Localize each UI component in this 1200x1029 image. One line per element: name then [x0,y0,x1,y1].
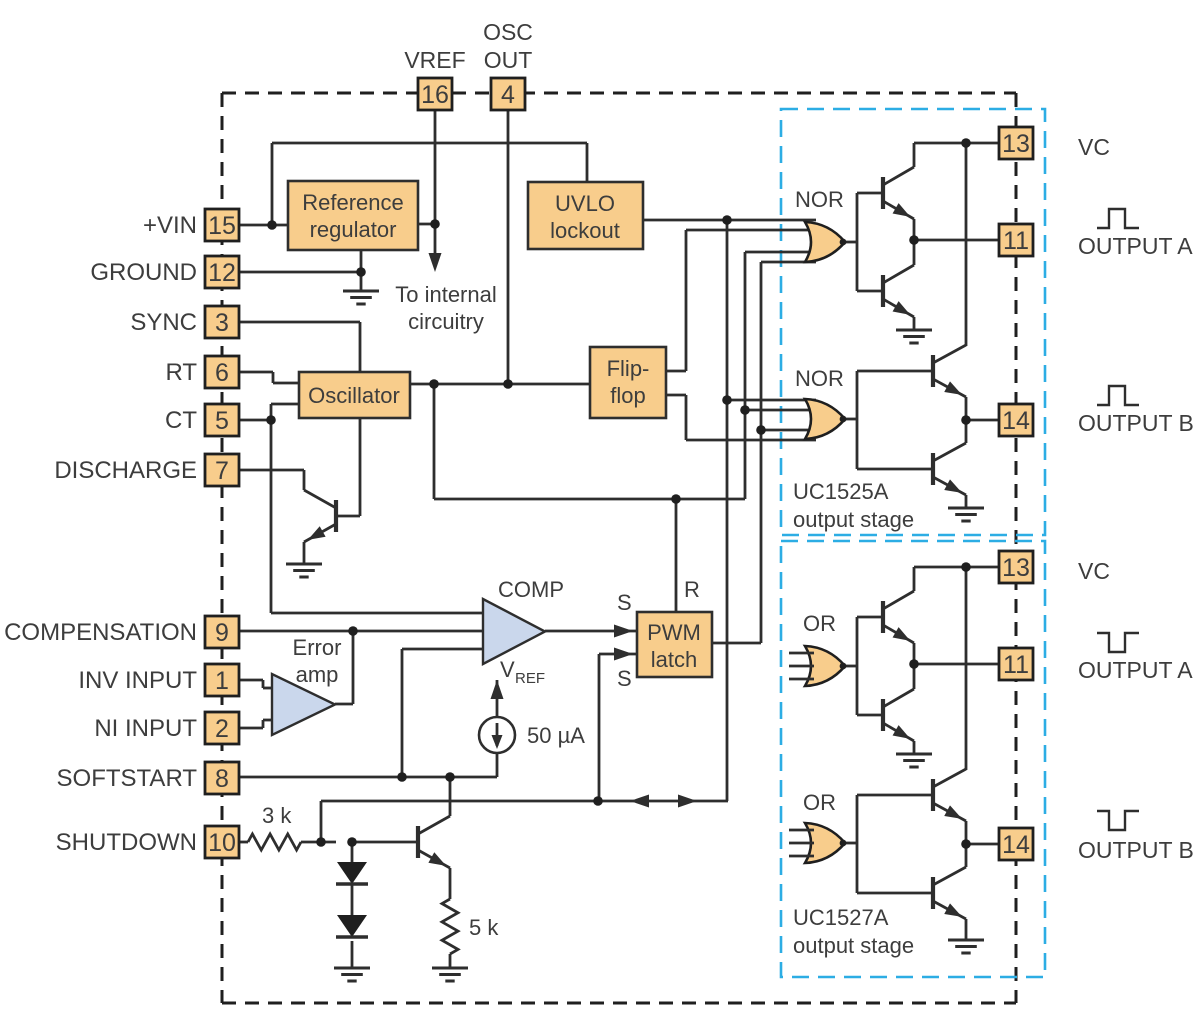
svg-text:INV INPUT: INV INPUT [78,667,197,694]
svg-text:15: 15 [208,212,236,240]
svg-text:flop: flop [610,383,645,408]
svg-text:14: 14 [1002,831,1030,859]
svg-text:To internal: To internal [395,282,497,307]
svg-text:13: 13 [1002,130,1030,158]
svg-text:VC: VC [1078,134,1110,160]
svg-text:Flip-: Flip- [607,356,650,381]
svg-text:2: 2 [215,715,229,743]
svg-text:SOFTSTART: SOFTSTART [57,765,198,792]
svg-text:amp: amp [296,662,339,687]
svg-text:16: 16 [421,81,449,109]
svg-text:UVLO: UVLO [555,191,615,216]
svg-text:9: 9 [215,619,229,647]
svg-text:DISCHARGE: DISCHARGE [54,457,197,484]
svg-text:UC1525A: UC1525A [793,479,889,504]
svg-text:latch: latch [651,647,697,672]
svg-text:10: 10 [208,829,236,857]
svg-text:OUTPUT A: OUTPUT A [1078,657,1193,683]
svg-text:UC1527A: UC1527A [793,905,889,930]
svg-text:13: 13 [1002,554,1030,582]
svg-text:regulator: regulator [310,217,397,242]
svg-text:Oscillator: Oscillator [308,383,400,408]
svg-text:V: V [500,657,515,682]
svg-text:50 µA: 50 µA [527,723,585,748]
svg-text:NI INPUT: NI INPUT [94,715,197,742]
svg-text:S: S [617,666,632,691]
svg-text:7: 7 [215,457,229,485]
svg-text:R: R [684,577,700,602]
svg-text:CT: CT [165,407,197,434]
svg-text:COMPENSATION: COMPENSATION [4,619,197,646]
svg-text:GROUND: GROUND [90,259,197,286]
svg-text:OUT: OUT [484,47,533,73]
svg-text:Error: Error [293,635,342,660]
svg-text:Reference: Reference [302,190,404,215]
svg-text:NOR: NOR [795,366,844,391]
svg-text:1: 1 [215,667,229,695]
svg-text:11: 11 [1003,227,1029,255]
svg-text:6: 6 [215,359,229,387]
svg-text:RT: RT [165,359,197,386]
svg-text:circuitry: circuitry [408,309,484,334]
svg-text:SYNC: SYNC [130,309,197,336]
svg-text:COMP: COMP [498,577,564,602]
svg-text:output stage: output stage [793,507,914,532]
svg-text:VC: VC [1078,558,1110,584]
svg-text:NOR: NOR [795,187,844,212]
svg-text:8: 8 [215,765,229,793]
svg-text:output stage: output stage [793,933,914,958]
svg-text:3: 3 [215,309,229,337]
svg-text:PWM: PWM [647,620,701,645]
svg-text:4: 4 [501,81,515,109]
svg-text:OUTPUT B: OUTPUT B [1078,410,1194,436]
svg-text:OUTPUT A: OUTPUT A [1078,233,1193,259]
svg-text:+VIN: +VIN [143,212,197,239]
svg-text:5: 5 [215,407,229,435]
svg-text:OSC: OSC [483,19,533,45]
svg-text:14: 14 [1002,407,1030,435]
svg-text:12: 12 [208,259,236,287]
svg-text:REF: REF [515,670,545,687]
svg-text:SHUTDOWN: SHUTDOWN [56,829,197,856]
svg-text:VREF: VREF [404,47,465,73]
svg-text:3 k: 3 k [262,803,292,828]
svg-text:S: S [617,590,632,615]
svg-text:5 k: 5 k [469,915,499,940]
svg-text:lockout: lockout [550,218,620,243]
svg-text:OUTPUT B: OUTPUT B [1078,837,1194,863]
svg-text:OR: OR [803,790,836,815]
svg-text:11: 11 [1003,651,1029,679]
svg-text:OR: OR [803,611,836,636]
